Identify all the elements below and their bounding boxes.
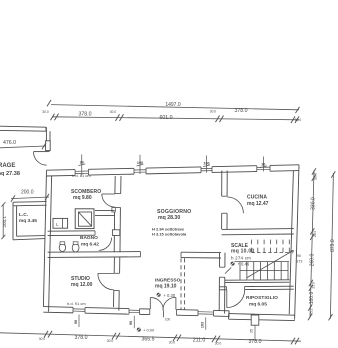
dim 200.0 line bbox=[11, 197, 49, 199]
svg-text:mq 28.30: mq 28.30 bbox=[158, 215, 180, 221]
wall scale bottom bbox=[225, 279, 289, 281]
svg-text:365.5: 365.5 bbox=[142, 336, 155, 342]
svg-text:200.0: 200.0 bbox=[21, 189, 34, 195]
door garage leaf bbox=[34, 151, 50, 153]
svg-text:mq 9.80: mq 9.80 bbox=[73, 195, 92, 201]
svg-text:378.0: 378.0 bbox=[75, 335, 88, 341]
wall soggiorno-ingresso right bbox=[181, 251, 221, 253]
svg-text:STUDIO: STUDIO bbox=[71, 276, 90, 282]
svg-text:mq 12.47: mq 12.47 bbox=[247, 201, 269, 207]
window 26 cucina bbox=[257, 166, 270, 168]
svg-text:35.2: 35.2 bbox=[309, 308, 313, 315]
wall bagno bottom bbox=[48, 251, 141, 254]
svg-text:601.0: 601.0 bbox=[160, 115, 173, 121]
svg-text:30.0: 30.0 bbox=[39, 337, 46, 341]
svg-text:mq 6.05: mq 6.05 bbox=[249, 302, 267, 308]
svg-text:30.0: 30.0 bbox=[169, 341, 176, 345]
wall house left bbox=[43, 170, 46, 306]
door scombero arc bbox=[102, 194, 115, 207]
svg-text:100: 100 bbox=[203, 162, 209, 166]
svg-text:+ 0.00: + 0.00 bbox=[143, 328, 155, 333]
dim right inner line bbox=[310, 170, 314, 317]
door studio arc bbox=[98, 273, 114, 290]
window 90 ingresso bbox=[129, 309, 140, 311]
svg-text:mq 6.42: mq 6.42 bbox=[81, 241, 99, 247]
dim 476.0 line bbox=[0, 146, 46, 148]
window 26 scombero bbox=[75, 170, 88, 172]
door cucina arc bbox=[227, 197, 243, 213]
wall house top bbox=[47, 169, 76, 172]
dim 1497 line bbox=[51, 105, 299, 110]
door ingresso-scale leaf bbox=[225, 267, 231, 273]
svg-text:25.0: 25.0 bbox=[312, 282, 316, 289]
svg-text:H 3.15 sottotavola: H 3.15 sottotavola bbox=[152, 231, 187, 236]
wall lc left bbox=[12, 202, 14, 240]
chimney bbox=[75, 209, 94, 229]
door entrance leaves bbox=[149, 298, 151, 309]
fixture L box bbox=[53, 218, 68, 228]
door entrance arcs bbox=[150, 298, 163, 311]
wall ripostiglio bottom bbox=[229, 314, 295, 316]
svg-text:378.0: 378.0 bbox=[249, 339, 262, 345]
svg-text:1497.0: 1497.0 bbox=[165, 102, 181, 108]
svg-text:SOGGIORNO: SOGGIORNO bbox=[157, 209, 191, 215]
svg-text:30.0: 30.0 bbox=[295, 118, 302, 122]
svg-text:103: 103 bbox=[201, 322, 205, 328]
svg-text:CUCINA: CUCINA bbox=[247, 195, 267, 201]
door bagno arc bbox=[99, 238, 112, 251]
svg-text:26: 26 bbox=[80, 161, 84, 165]
door scombero leaf bbox=[102, 193, 115, 195]
svg-text:90: 90 bbox=[74, 320, 78, 324]
svg-text:173: 173 bbox=[296, 259, 302, 263]
vent ripostiglio bbox=[251, 315, 259, 325]
window 100 w2 bbox=[201, 167, 212, 169]
svg-text:mq 27.38: mq 27.38 bbox=[0, 171, 20, 177]
window 100 w1 bbox=[134, 169, 146, 171]
dim 200.1 line bbox=[2, 204, 4, 237]
svg-text:378.0: 378.0 bbox=[79, 111, 92, 117]
fixture wc bbox=[59, 244, 65, 252]
svg-text:SCOMBERO: SCOMBERO bbox=[71, 189, 101, 195]
svg-text:160.0: 160.0 bbox=[309, 292, 315, 305]
svg-text:30.0: 30.0 bbox=[210, 109, 217, 113]
svg-text:+ 0.30: + 0.30 bbox=[163, 293, 175, 298]
wall bagno top stub bbox=[112, 230, 119, 236]
door ripostiglio arc bbox=[227, 290, 245, 308]
stairs lower treads bbox=[239, 262, 241, 280]
wall ingresso-scale bbox=[219, 253, 221, 268]
wall lc bottom bbox=[13, 239, 45, 240]
wall bagno top bbox=[48, 230, 95, 232]
svg-text:260.0: 260.0 bbox=[309, 254, 315, 267]
svg-text:RIPOSTIGLIO: RIPOSTIGLIO bbox=[246, 295, 278, 301]
svg-text:200.1: 200.1 bbox=[2, 216, 7, 228]
wall garage right jamb bbox=[45, 127, 47, 151]
svg-text:h.d. 81 cm: h.d. 81 cm bbox=[72, 173, 91, 178]
dashed partition bbox=[180, 258, 182, 309]
svg-text:26: 26 bbox=[261, 163, 265, 167]
stairs direction arrow bbox=[247, 250, 293, 277]
svg-text:100: 100 bbox=[165, 317, 171, 321]
wall house bottom bbox=[43, 306, 73, 309]
wall ripostiglio top bbox=[219, 286, 226, 288]
wall lc top bbox=[13, 201, 47, 204]
svg-text:90: 90 bbox=[129, 321, 133, 325]
svg-text:mq 3.45: mq 3.45 bbox=[19, 218, 37, 224]
window 103 ingresso bbox=[198, 311, 214, 313]
svg-text:30.0: 30.0 bbox=[314, 173, 318, 180]
svg-text:GARAGE: GARAGE bbox=[0, 163, 15, 169]
door ripostiglio leaf bbox=[226, 290, 228, 308]
level mark 0.46 bbox=[231, 262, 235, 266]
svg-text:100: 100 bbox=[137, 161, 143, 165]
svg-text:330.0: 330.0 bbox=[311, 197, 317, 210]
door entrance centre stub bbox=[162, 311, 164, 318]
svg-text:mq 19.10: mq 19.10 bbox=[155, 283, 177, 289]
wall cucina-scale bbox=[222, 228, 294, 231]
wall garage top bbox=[0, 126, 46, 127]
svg-text:30.0: 30.0 bbox=[42, 110, 49, 114]
fixture bidet bbox=[72, 244, 79, 252]
svg-text:90: 90 bbox=[297, 254, 301, 258]
level mark 0.30 bbox=[157, 293, 161, 297]
svg-text:211.0: 211.0 bbox=[193, 338, 206, 344]
svg-text:476.0: 476.0 bbox=[3, 140, 16, 146]
svg-text:879.0: 879.0 bbox=[330, 239, 336, 252]
stairs upper dashed bbox=[251, 240, 253, 253]
window 90 studio bbox=[73, 308, 85, 310]
svg-text:30.0: 30.0 bbox=[107, 339, 114, 343]
svg-text:BAGNO: BAGNO bbox=[80, 235, 98, 241]
door garage arc bbox=[33, 152, 46, 166]
svg-text:h 274 cm: h 274 cm bbox=[231, 256, 251, 261]
svg-text:+ 0.46: + 0.46 bbox=[237, 262, 249, 267]
dim bottom line bbox=[0, 333, 301, 341]
svg-text:30.0: 30.0 bbox=[110, 110, 117, 114]
svg-text:30.0: 30.0 bbox=[215, 341, 222, 345]
wall soggiorno-cucina bbox=[221, 171, 223, 197]
dim right outer line bbox=[330, 173, 333, 319]
wall scombero-bagno stub bbox=[95, 209, 115, 211]
svg-text:L.C.: L.C. bbox=[19, 212, 28, 218]
door studio leaf bbox=[98, 272, 114, 274]
level mark 0.00 bbox=[137, 328, 141, 332]
wall house right bbox=[295, 165, 299, 320]
svg-text:35: 35 bbox=[250, 329, 254, 333]
svg-text:mq 10.00: mq 10.00 bbox=[231, 249, 254, 255]
dim top segments line bbox=[52, 117, 299, 120]
svg-text:378.0: 378.0 bbox=[235, 108, 248, 114]
svg-text:h.d. 91 cm: h.d. 91 cm bbox=[67, 301, 86, 306]
svg-text:26.0: 26.0 bbox=[313, 231, 317, 238]
wall scombero-soggiorno bbox=[114, 176, 116, 194]
svg-text:mq 12.00: mq 12.00 bbox=[71, 282, 93, 288]
wall studio right bbox=[113, 257, 115, 273]
